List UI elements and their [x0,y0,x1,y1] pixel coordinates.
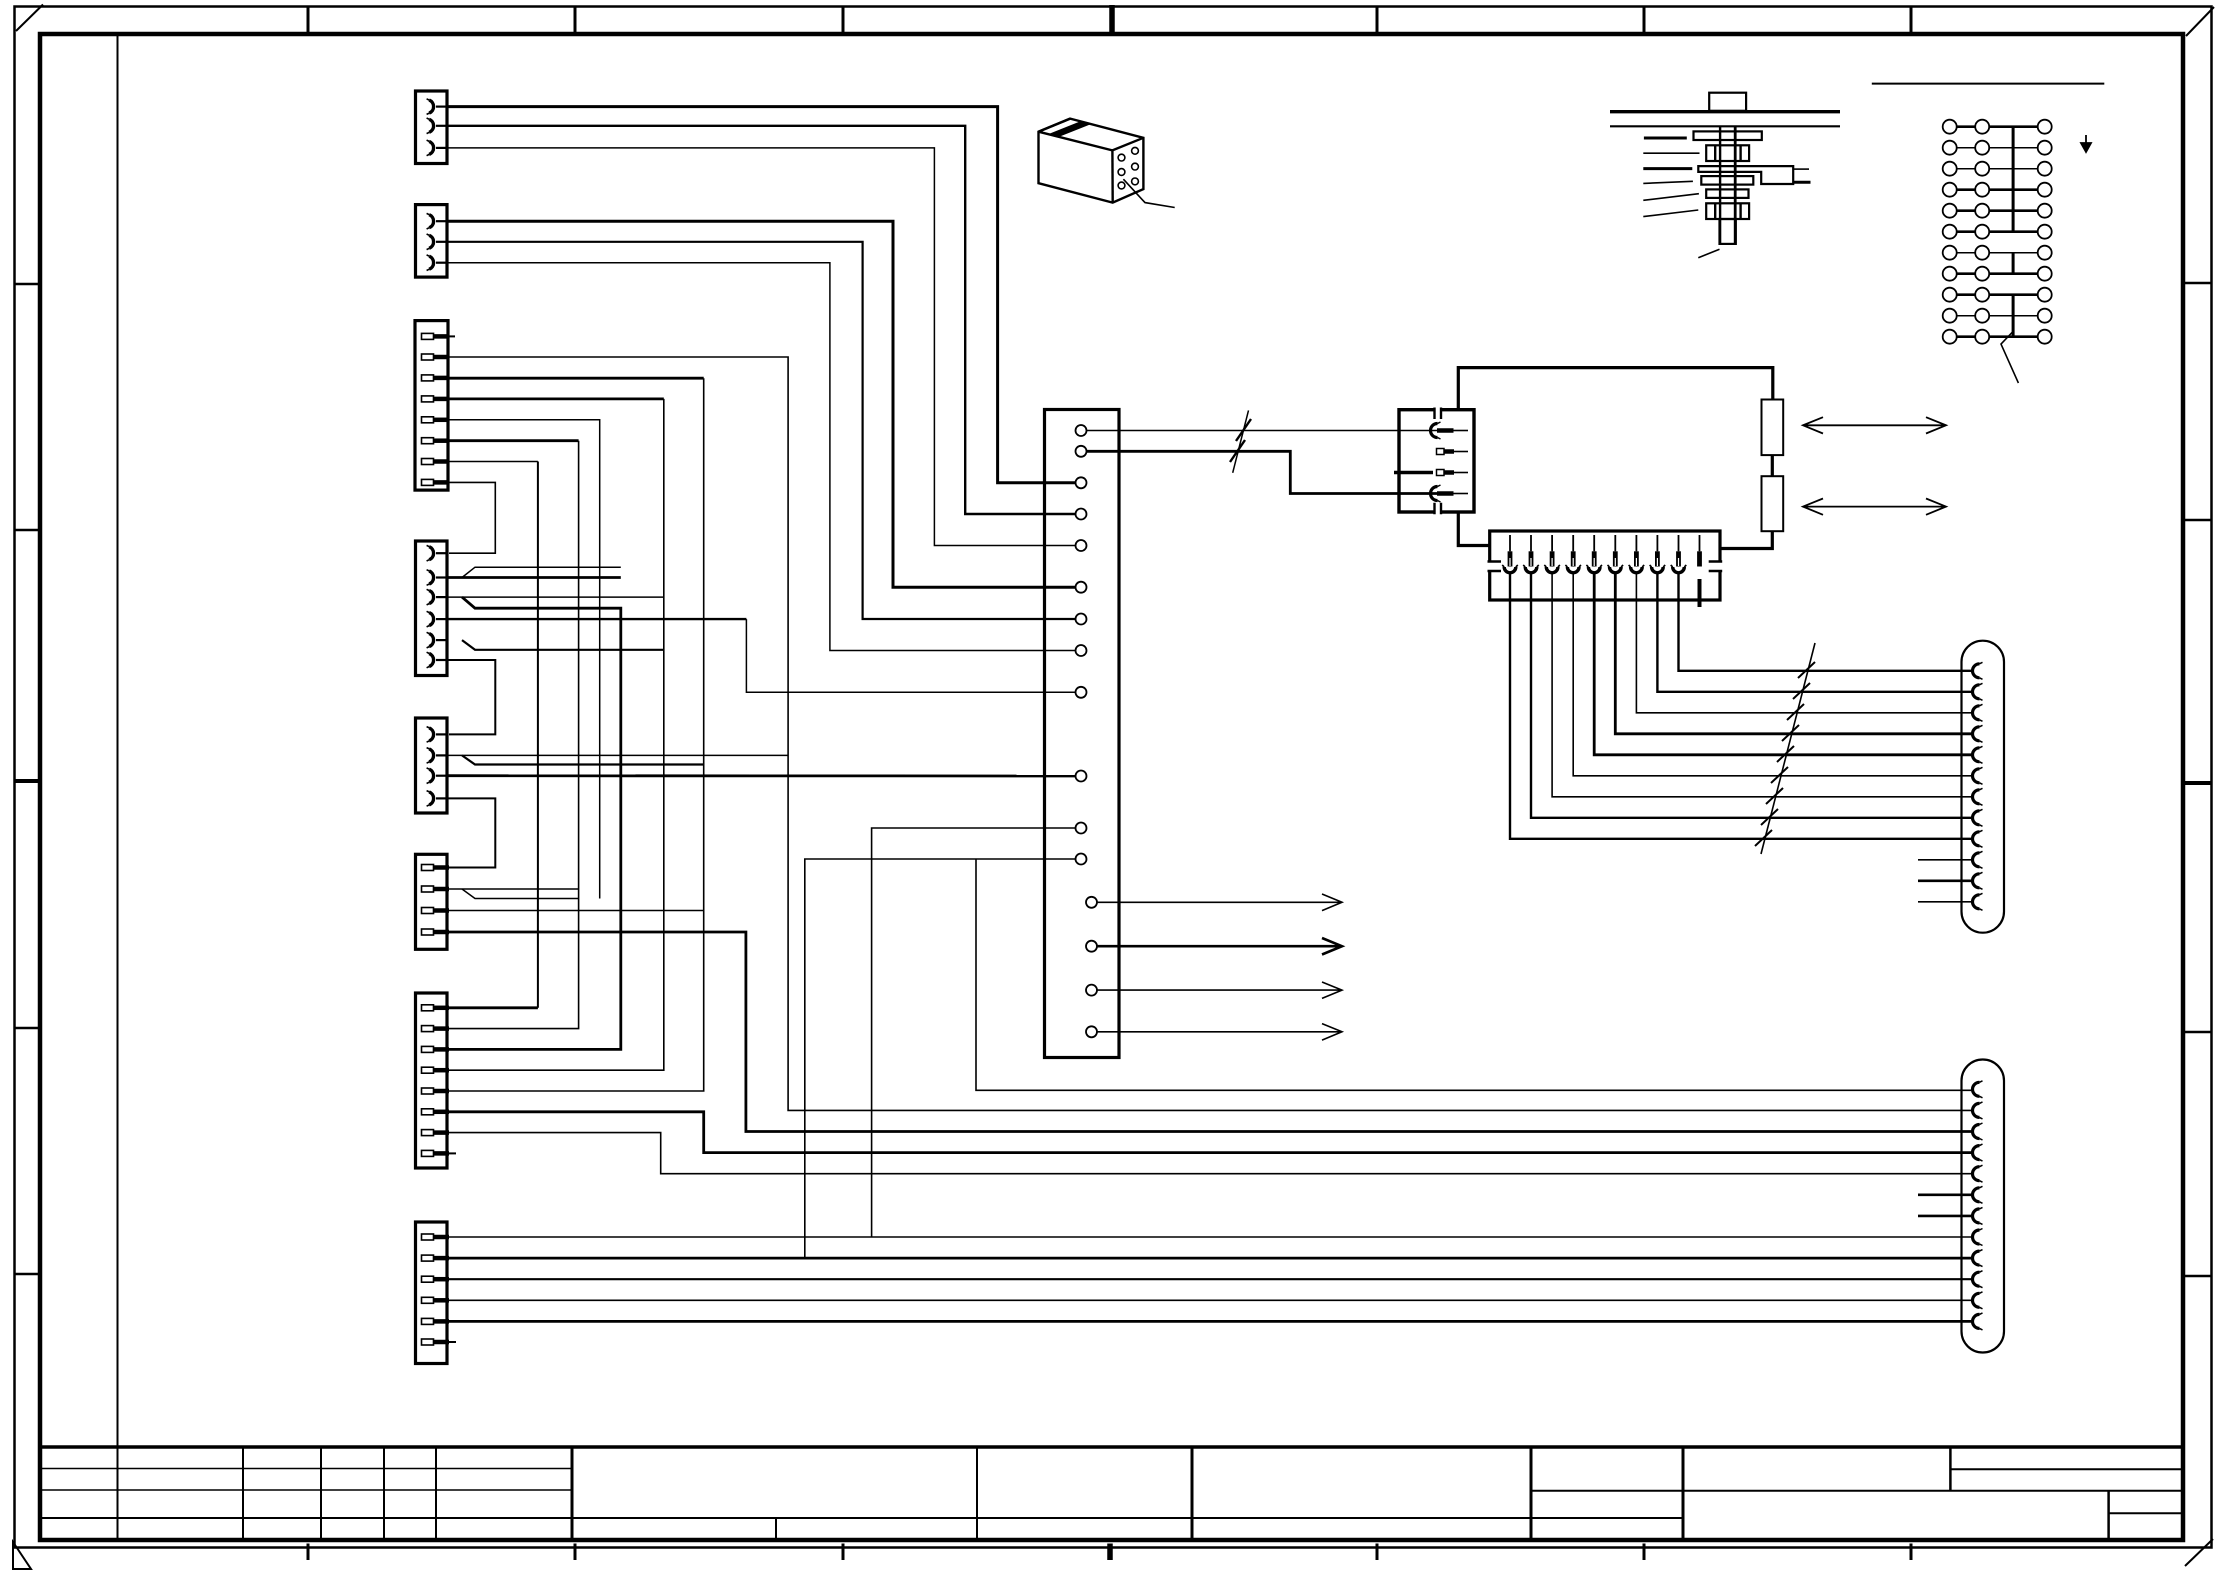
connector XS3 pin 7 [422,459,450,465]
zone tick bottom 5 [1376,1544,1379,1561]
connector XS8 body [416,1222,448,1364]
CENTRAL TERMINAL STRIP XT1 [1045,410,1343,1058]
connector XS5 pin 1 [427,727,448,743]
wire XS6.2 straight [449,888,579,890]
XS9 pin 10 [1973,851,1983,868]
XP1 pin 10 [1699,535,1701,551]
wire XS1.3 to XT1:5 [447,148,1076,546]
bolt bar with terminal [1698,166,1793,184]
STADIUM CONNECTOR XS10 [1918,1060,2004,1353]
connector XS8 pin 1 [422,1234,450,1240]
connector XS8 pin 2 [422,1255,450,1261]
XS10 pin 2 [1973,1102,1983,1119]
connector XS7 pin 3 [422,1046,450,1052]
terminal XT1:4 [1076,509,1087,520]
bundle slash long [1761,643,1815,854]
box U1 outline [1039,119,1144,203]
bolt washer 1 [1694,131,1762,140]
link R2 to bottom [1720,531,1772,548]
connector XS1 pin 1 [427,99,448,115]
connector XS7 pin 2 [422,1026,450,1032]
wire XS5.2 kink [462,755,704,764]
connector XS7 body [416,993,448,1168]
ladder row 3 [1943,162,2052,176]
zone tick right 5 [2183,1275,2212,1278]
ladder row 2 [1943,141,2052,155]
XS10 pin 7 [1973,1207,1983,1224]
XP1 pin 7 [1635,535,1637,551]
connector XS4 body [416,541,448,676]
bundle tick 7 [1766,788,1783,804]
wire XS5.2 straight [447,754,788,756]
wire XS6.4 to XS10:3 [449,932,1971,1132]
ladder row 4 [1943,183,2052,197]
ladder bus segment 1 [2012,127,2015,232]
connector XS6 pin 2 [422,886,450,892]
connector X1 top notch [1435,408,1441,412]
device A1 left lower link [1458,512,1489,546]
connector XS6 pin 1 [422,865,450,871]
wire XS8.2 to XS10:9 [449,1257,1971,1260]
XS10 pin 12 [1973,1313,1983,1330]
bolt insulator 1 tab right [1739,145,1741,161]
connector XS4 pin 6 [427,652,448,668]
connector XP1 left notch [1488,563,1492,571]
title block bottom row divider 1 [775,1518,777,1540]
connector XS8 pin 3 [422,1276,450,1282]
ladder row 9 [1943,288,2052,302]
wire XS7.7 to XS10:5 [449,1133,1971,1174]
connector XS3 pin 4 [422,396,450,402]
XP1 pin 9 [1678,535,1680,551]
connector XS3 pin 5 [422,417,450,423]
zone tick top 2 [574,7,577,35]
connector XS2 body [416,205,448,278]
double arrow 1 [1803,417,1946,433]
title block column e (thick) [571,1447,574,1540]
title block column c [383,1447,385,1540]
box U1 leader [1123,179,1174,207]
connector XS3 pin 1 [422,333,450,339]
wire XS3.3 to XS7.5 bus [449,377,704,380]
wire XS3.7 to XS7.1 bus [449,461,538,463]
wire XS5.3 to XT1:10 [447,774,1076,777]
device A1 outline top [1458,368,1773,410]
connector XP1 right notch [1718,563,1722,571]
zone tick bottom 1 [307,1544,310,1561]
box U1 top left edge outline [1039,119,1071,132]
title block row line 1 [40,1468,572,1470]
XS9 pin 11 [1973,872,1983,889]
bolt insulator 2 [1706,203,1749,219]
connector XS8 pin 4 [422,1297,450,1303]
callout line 6 [1643,210,1698,217]
zone tick bottom 2 [574,1544,577,1561]
terminal XT1:5 [1076,540,1087,551]
wire XS3.2 to XS10:2 vertical bus [449,357,1971,1110]
ladder row 11 [1943,330,2052,344]
bundle tick 3 [1787,704,1804,720]
terminal XT1:10 [1076,771,1087,782]
arrow out 3 [1097,982,1342,998]
wire XP1.7 to XS9:3 [1636,573,1972,713]
wire XP1.5 to XS9:5 [1594,573,1972,755]
XS10 pin 7 stub [1918,1215,1972,1218]
XS9 pin 9 [1973,830,1983,847]
cable slash tick 2 [1230,440,1245,462]
title block row line 2 [40,1489,572,1491]
connector XP1 body [1490,531,1720,600]
connector X1 body [1399,410,1474,512]
connector XS1 body [416,91,448,164]
title block column i [1949,1447,1952,1491]
connector XS2 pin 2 [427,234,448,250]
wire XS8.4 to XS10:11 [449,1299,1971,1301]
callout line 5 [1643,194,1699,201]
zone tick left 4 [15,1027,41,1030]
ladder leader [2001,332,2018,383]
terminal XT1:2 [1076,446,1087,457]
wire XS8.1 to XS10:8 [449,1236,1971,1238]
connector XS6 pin 3 [422,908,450,914]
XP1 pin 3 [1551,535,1553,551]
XP1 pin 5 [1593,535,1595,551]
connector XS7 pin 1 [422,1005,450,1011]
connector XS4 pin 5 [427,632,448,648]
bundle tick 8 [1761,809,1778,825]
connector XS10 body [1962,1060,2005,1353]
zone tick left 5 [15,1273,41,1276]
connector X1 pin 4 [1431,485,1441,502]
title block row line 3 full [40,1517,1683,1519]
XS9 pin 10 stub [1918,859,1972,861]
XS10 pin 11 [1973,1292,1983,1309]
wire XS2.2 to XT1:7 [447,242,1076,619]
ladder row 8 [1943,267,2052,281]
XS10 pin 8 [1973,1229,1983,1246]
XS9 pin 6 [1973,767,1983,784]
connector XS3 pin 3 [422,375,450,381]
box U1 front right vertical [1111,150,1114,202]
wire XS2.1 to XT1:6 [447,221,1076,587]
wire XS6.3 junction [449,910,704,912]
wire XS7.8 stub [449,1152,456,1154]
wire XS3.1 stub [448,335,455,337]
connector X1 pin 3 [1437,470,1445,476]
title block column e2 [976,1447,978,1540]
XP1 pin 1 [1509,535,1511,551]
wire XP1.6 to XS9:4 [1615,573,1972,734]
bolt panel line lower [1610,125,1840,127]
zone tick top 3 [842,7,845,35]
XS10 pin 6 stub [1918,1194,1972,1197]
connector XS7 pin 6 [422,1109,450,1115]
ladder bus segment 2 [2012,253,2015,274]
terminal XT1:9 [1076,687,1087,698]
box U1 hole 5 [1132,163,1139,170]
connector XS1 pin 3 [427,140,448,156]
cable slash long [1233,410,1249,472]
wire XS4.2 straight [447,576,621,579]
XP1 pin 6 [1614,535,1616,551]
bolt top rect [1709,93,1746,111]
XS9 pin 12 [1973,893,1983,910]
ISOMETRIC BOX U1 [1039,119,1175,208]
callout line 3 [1643,167,1692,170]
terminal XT1:1 [1076,425,1087,436]
wire XS4.4 to XT1:9 [447,618,746,620]
zone tick right 3 (center) [2183,781,2212,785]
XS10 pin 9 [1973,1250,1983,1267]
connector XS5 pin 3 [427,768,448,784]
connector XS5 pin 4 [427,791,448,807]
wire XT1:2 to X1.4 [1087,451,1438,493]
zone tick top 1 [307,7,310,35]
connector XS7 pin 7 [422,1130,450,1136]
bolt shaft left [1719,126,1721,243]
bundle tick 5 [1777,746,1794,762]
title block mid line right [1531,1490,2183,1492]
XP1 pin 2 [1530,535,1532,551]
connector XS6 body [416,854,448,949]
bolt insulator 1 [1706,145,1749,161]
zone tick left 2 [15,529,41,532]
bolt shaft right [1734,126,1737,243]
XP1 pin 4 [1572,535,1574,551]
wire XS5.4 to XS6.1 [447,798,495,867]
arrow out 4 [1097,1024,1342,1041]
box U1 hole 1 [1118,154,1125,161]
title block column d [435,1447,437,1540]
connector XS5 body [416,718,448,813]
terminal XT1:6 [1076,582,1087,593]
zone tick bottom 6 [1643,1544,1646,1561]
callout line 4 [1643,181,1693,183]
box U1 hole 3 [1118,182,1125,189]
zone tick bottom 3 [842,1544,845,1561]
zone tick bottom 7 [1910,1544,1913,1561]
connector XS3 pin 6 [422,438,450,444]
bundle tick 4 [1782,725,1799,741]
bolt panel line upper [1610,110,1840,113]
connector XS5 pin 2 [427,748,448,764]
XS9 pin 3 [1973,704,1983,721]
ladder bus segment 3 [2012,295,2015,337]
bolt washer 3 [1706,189,1748,198]
connector X1 pin 2 [1437,449,1445,455]
WIRES LEFT AREA [447,107,1971,1342]
wire XT1:1 to X1.1 [1087,430,1438,432]
STADIUM CONNECTOR XS9 [1918,641,2004,933]
wire XS7.6 to XS10:4 [449,1112,1971,1153]
terminal XT1:11 [1076,823,1087,834]
connector XS4 pin 3 [427,589,448,605]
terminal XT1:3 [1076,477,1087,488]
wire to XT1:12 [805,859,1076,1258]
connector X1 pin 1 [1431,422,1441,439]
bolt leader bottom [1698,249,1719,257]
wire XS8.3 to XS10:10 [449,1278,1971,1280]
callout line 2 [1643,152,1699,154]
box U1 hole 2 [1118,169,1125,176]
connector XS7 pin 8 [422,1150,450,1156]
ladder row 1 [1943,120,2052,134]
bolt side stub 2 [1793,181,1810,184]
box U1 black stripe [1048,121,1091,137]
connector XS6 pin 4 [422,929,450,935]
XS10 pin 6 [1973,1186,1983,1203]
BOLT ASSEMBLY [1610,93,1840,258]
bundle tick 9 [1755,830,1772,846]
box U1 hole 6 [1132,178,1139,185]
wire XS3.6 to XS7.2 bus [449,439,579,442]
wire XS4.2 kink [462,567,621,577]
wire XP1.8 to XS9:2 [1657,573,1972,692]
zone tick left 3 (center) [15,779,41,783]
bolt washer 2 [1701,176,1753,185]
arrow out 2 [1097,938,1342,955]
wire XS3.5 descending [449,420,600,899]
XS10 pin 10 [1973,1271,1983,1288]
wire XS1.2 to XT1:4 [447,126,1076,514]
LEFT CONNECTORS [415,91,449,1364]
wire XS4.5 kink [462,640,664,650]
ladder row 10 [1943,309,2052,323]
connector X1 pin 3 outside bar [1394,471,1433,474]
title block column g [1530,1447,1533,1540]
title block right lower divider [2109,1512,2183,1514]
wire to XT1:11 [872,828,1076,1237]
terminal XT1:12 [1076,854,1087,865]
wire XP1.3 to XS9:7 [1552,573,1972,797]
zone tick right 2 [2183,519,2212,522]
title block column f [1191,1447,1194,1540]
connector X1 bottom notch [1435,510,1441,514]
arrow out 1 [1097,894,1342,911]
XS9 pin 11 stub [1918,879,1972,882]
terminal XT1:8 [1076,645,1087,656]
title block top edge [40,1445,2183,1449]
XS10 pin 3 [1973,1123,1983,1140]
ladder row 6 [1943,225,2052,239]
bolt insulator 2 tab left [1714,203,1716,219]
wire XS4.3 straight [447,596,664,598]
XS9 pin 7 [1973,788,1983,805]
XS9 pin 1 [1973,662,1983,679]
LADDER TERMINAL BLOCK XT2 [1872,84,2105,383]
wire XS3.8 to XS4.1 [449,482,495,553]
DEVICE A1 [1458,368,1946,600]
TITLE BLOCK [40,1447,2183,1540]
connector XS4 pin 2 [427,570,448,586]
corner diagonal top-right [2186,7,2214,36]
zone tick top 4 (center) [1109,5,1115,34]
terminal XT1:15 [1086,985,1097,996]
XS9 pin 4 [1973,725,1983,742]
corner diagonal bottom-right [2185,1539,2213,1566]
double arrow 2 [1803,499,1946,515]
terminal XT1:14 [1086,941,1097,952]
terminal strip XT1 body [1045,410,1120,1058]
wire XP1.2 to XS9:8 [1531,573,1972,818]
title block column a [242,1447,244,1540]
title block column h [1682,1447,1685,1540]
link R1-R2 [1771,455,1774,476]
connector XS1 pin 2 [427,118,448,134]
connector XS8 pin 5 [422,1318,450,1324]
ladder top line [1872,83,2105,85]
XS9 pin 5 [1973,746,1983,763]
wire to XS10:1 [976,859,1971,1090]
wire XS1.1 to XT1:3 [447,107,1076,483]
title block column b [320,1447,322,1540]
ladder row 5 [1943,204,2052,218]
wire XS4.6 to XS5.1 [447,660,495,734]
service column line x=117 [117,34,119,1540]
RELAY CONNECTOR X1 AND WIRES [1087,408,1475,515]
title block column j [2107,1491,2110,1540]
XS10 pin 4 [1973,1144,1983,1161]
corner diagonal bottom-left [13,1542,31,1569]
bolt side stub 1 [1793,168,1809,170]
zone tick left 1 [15,283,41,286]
bolt insulator 2 tab right [1739,203,1741,219]
connector XS3 body [415,321,448,491]
box U1 hole 4 [1132,147,1139,154]
XS10 pin 1 [1973,1081,1983,1098]
wire XS6.2 kink [462,889,579,899]
box U1 top front edge [1039,132,1144,151]
zone tick top 5 [1376,7,1379,35]
corner diagonal top-left [16,5,43,32]
connector XS8 pin 6 [422,1339,450,1345]
connector XS2 pin 3 [427,255,448,271]
connector XS3 pin 8 [422,479,450,485]
wire XP1.9 to XS9:1 [1679,573,1973,671]
zone tick right 1 [2183,282,2212,285]
wire XP1.4 to XS9:6 [1573,573,1972,776]
connector XS9 body [1962,641,2005,933]
bundle tick 2 [1793,683,1810,699]
connector XS4 pin 1 [427,545,448,561]
wire XS2.3 to XT1:8 [447,263,1076,651]
bundle tick 6 [1771,767,1788,783]
terminal XT1:13 [1086,897,1097,908]
DEVICE PINS AND WIRES TO XS9 [1502,535,1972,854]
resistor R1 [1762,400,1784,456]
callout line 1 [1644,137,1687,140]
zone tick right 4 [2183,1031,2212,1034]
ladder row 7 [1943,246,2052,260]
wire XP1.1 to XS9:9 [1510,573,1972,839]
terminal XT1:7 [1076,614,1087,625]
resistor R2 [1762,476,1784,531]
XS9 pin 12 stub [1918,901,1972,903]
connector XS3 pin 2 [422,354,450,360]
cable slash tick 1 [1236,419,1251,441]
bolt shaft bottom [1720,219,1736,244]
connector XS2 pin 1 [427,213,448,229]
XS9 pin 8 [1973,809,1983,826]
title block right cell line 1 [1950,1468,2183,1470]
zone tick top 6 [1643,7,1646,35]
zone tick top 7 [1910,7,1913,35]
wire XS4.3 kink to XS7.3 bus [449,597,621,1049]
bolt insulator 1 tab left [1714,145,1716,161]
bundle tick 1 [1798,662,1815,678]
wire XS8.5 to XS10:12 [449,1320,1971,1323]
connector XS7 pin 5 [422,1088,450,1094]
